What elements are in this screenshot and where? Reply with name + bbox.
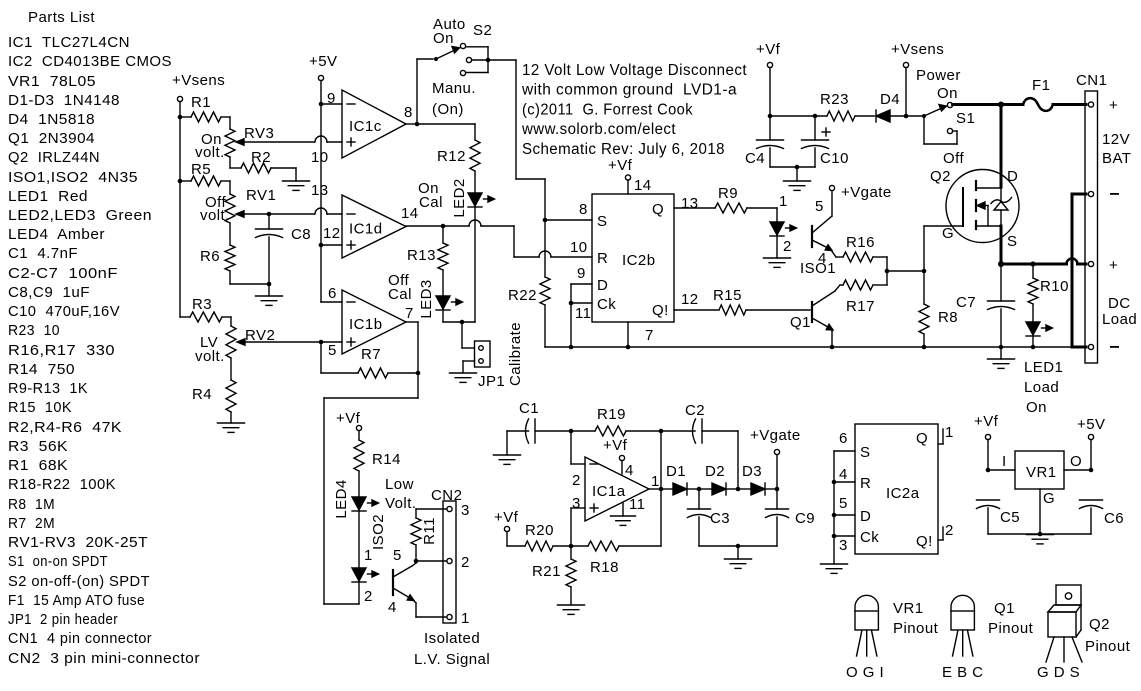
svg-text:Q1: Q1: [994, 600, 1015, 617]
svg-text:+5V: +5V: [1077, 416, 1105, 433]
svg-text:R8 1M: R8 1M: [8, 496, 55, 513]
svg-text:Cal: Cal: [419, 194, 443, 211]
svg-text:+Vf: +Vf: [494, 509, 519, 526]
wire RV2 wiper to IC1b pin5: [321, 341, 342, 343]
svg-text:4: 4: [625, 462, 634, 479]
svg-text:RV1: RV1: [246, 187, 276, 204]
svg-text:D4 1N5818: D4 1N5818: [8, 111, 95, 128]
wire battery - return (thick): [1072, 194, 1086, 347]
svg-text:R16: R16: [846, 234, 875, 251]
ground (C4/C10): [784, 167, 811, 190]
svg-text:Calibrate: Calibrate: [507, 322, 524, 386]
svg-text:Parts List: Parts List: [28, 9, 95, 26]
svg-text:S2: S2: [473, 22, 492, 39]
svg-text:I: I: [1002, 453, 1007, 470]
svg-text:C9: C9: [795, 510, 815, 527]
node drain tap (thick): [998, 102, 1004, 108]
power terminal +Vf (VR1 input): [974, 413, 999, 472]
resistor R8: [919, 271, 958, 349]
svg-text:RV1-RV3 20K-25T: RV1-RV3 20K-25T: [8, 534, 148, 551]
svg-text:D: D: [597, 277, 608, 294]
resistor R20: [525, 522, 571, 551]
svg-text:+Vf: +Vf: [336, 410, 361, 427]
svg-text:S2 on-off-(on) SPDT: S2 on-off-(on) SPDT: [8, 573, 150, 590]
wire S2 to IC2b S pin: [488, 60, 545, 220]
svg-text:G: G: [942, 225, 954, 242]
node C8 tap: [267, 212, 272, 217]
resistor R16: [843, 234, 887, 271]
svg-text:R2: R2: [251, 149, 271, 166]
node R5 tap: [178, 179, 183, 184]
svg-text:R16,R17 330: R16,R17 330: [8, 342, 115, 359]
svg-text:R8: R8: [938, 309, 958, 326]
svg-text:RV3: RV3: [244, 125, 274, 142]
svg-text:IC2 CD4013BE CMOS: IC2 CD4013BE CMOS: [8, 53, 172, 70]
wire IC1a pin2: [571, 431, 585, 464]
pin labels IC1c: [311, 90, 413, 166]
label LED1 Load On: [1024, 359, 1063, 416]
wire battery + (thick): [953, 103, 1086, 106]
op-amp IC1b: [342, 290, 406, 354]
svg-text:R7 2M: R7 2M: [8, 515, 55, 532]
svg-text:1: 1: [651, 473, 660, 490]
resistor R12: [437, 124, 480, 192]
svg-text:7: 7: [645, 327, 654, 344]
svg-text:C10: C10: [820, 150, 849, 167]
svg-text:LED1 Red: LED1 Red: [8, 188, 88, 205]
resistor R5: [180, 161, 230, 186]
svg-text:14: 14: [634, 177, 652, 194]
svg-text:R1: R1: [191, 94, 211, 111]
svg-text:C7: C7: [956, 294, 976, 311]
wire LED3 cathode / calibrate node: [443, 311, 475, 324]
svg-text:Pinout: Pinout: [988, 620, 1034, 637]
resistor R10: [1028, 264, 1069, 321]
wire C4/C10 ground bus: [770, 165, 815, 170]
svg-text:Volt.: Volt.: [385, 495, 416, 512]
switch S1: [906, 102, 957, 144]
svg-text:with common ground LVD1-a: with common ground LVD1-a: [521, 82, 737, 99]
svg-text:IC1 TLC27L4CN: IC1 TLC27L4CN: [8, 34, 130, 51]
svg-text:IC2a: IC2a: [886, 485, 920, 502]
hop load+ over battery-: [1067, 259, 1078, 265]
capacitor C5: [977, 500, 1021, 534]
power terminal +Vf (top right): [756, 41, 781, 118]
svg-text:9: 9: [577, 265, 586, 282]
svg-text:LED2: LED2: [451, 178, 468, 217]
wire IC2b D/Ck tie: [569, 284, 592, 349]
power terminal +Vf (IC1a pin4): [603, 437, 628, 474]
pin labels IC1b: [328, 285, 414, 359]
svg-text:Q!: Q!: [652, 302, 669, 319]
transistor Q2 (MOSFET IRLZ44N): [946, 170, 1019, 243]
svg-text:C3: C3: [710, 510, 730, 527]
fuse F1: [1023, 77, 1053, 111]
power terminal +Vf (IC2b pin14): [608, 157, 633, 194]
svg-text:Q2: Q2: [1089, 616, 1110, 633]
labels VR1 pinout: [846, 600, 939, 681]
svg-text:volt.: volt.: [195, 348, 225, 365]
svg-text:VR1 78L05: VR1 78L05: [8, 73, 96, 90]
resistor R13: [407, 226, 448, 295]
svg-text:R: R: [860, 475, 871, 492]
LED LED2: [451, 178, 495, 217]
svg-text:On: On: [433, 30, 454, 47]
power terminal +Vgate (pump output): [750, 427, 801, 489]
wire LED4 to ISO2 LED: [358, 512, 360, 568]
svg-text:10: 10: [570, 239, 588, 256]
svg-text:Q1 2N3904: Q1 2N3904: [8, 130, 95, 147]
pin labels ISO1 LED: [779, 193, 792, 255]
svg-text:CN2 3 pin mini-connector: CN2 3 pin mini-connector: [8, 650, 200, 667]
op-amp IC1a: [585, 457, 649, 521]
ground (R4): [218, 423, 245, 432]
wire IC1b pin7 output down to LED4 chain: [324, 322, 420, 604]
wire IC1a output node: [619, 429, 663, 546]
labels Q1 pinout: [942, 600, 1034, 681]
svg-text:5: 5: [328, 342, 337, 359]
svg-text:12 Volt Low Voltage Disconnect: 12 Volt Low Voltage Disconnect: [522, 62, 747, 79]
svg-text:R3 56K: R3 56K: [8, 438, 68, 455]
svg-text:D2: D2: [705, 463, 725, 480]
pinout Q1 (TO-92): [951, 595, 974, 656]
svg-text:L.V. Signal: L.V. Signal: [414, 651, 490, 668]
capacitor C9: [766, 489, 816, 546]
svg-text:VR1: VR1: [1026, 464, 1057, 481]
svg-text:13: 13: [681, 195, 699, 212]
pin labels ISO2 LED: [364, 547, 373, 605]
capacitor C2: [661, 402, 738, 489]
svg-text:R: R: [597, 250, 608, 267]
svg-text:4: 4: [818, 250, 827, 267]
svg-text:3: 3: [461, 502, 470, 519]
node pin12: [319, 243, 342, 248]
svg-text:LED1: LED1: [1024, 359, 1063, 376]
resistor R1: [180, 94, 230, 122]
svg-text:8: 8: [404, 104, 413, 121]
capacitor C1: [519, 400, 571, 443]
svg-text:8: 8: [579, 201, 588, 218]
LED LED3: [418, 279, 463, 318]
svg-text:D: D: [860, 508, 871, 525]
title block: [521, 62, 747, 158]
ground (C8/R6): [256, 284, 283, 305]
wire source to load + (thick): [1001, 226, 1086, 264]
labels S2 Auto/On/Manu: [432, 16, 492, 118]
ground (R2): [283, 168, 310, 190]
svg-text:3: 3: [839, 537, 848, 554]
wire IC2a Q! stub: [938, 527, 943, 540]
wire gate node: [885, 226, 963, 273]
svg-text:ISO2: ISO2: [370, 514, 387, 550]
resistor R15: [674, 287, 810, 315]
label Off volt.: [200, 194, 230, 224]
resistor R18: [569, 541, 619, 576]
svg-text:R1 68K: R1 68K: [8, 457, 68, 474]
svg-text:R18: R18: [590, 559, 619, 576]
svg-text:14: 14: [401, 205, 419, 222]
resistor R14: [354, 440, 401, 496]
svg-text:D4: D4: [880, 91, 900, 108]
resistor R3: [180, 296, 231, 322]
svg-text:+: +: [1109, 257, 1118, 274]
svg-text:Ck: Ck: [597, 296, 616, 313]
svg-text:IC1a: IC1a: [592, 483, 626, 500]
flip-flop IC2b: [592, 194, 674, 322]
svg-text:C6: C6: [1104, 510, 1124, 527]
svg-text:IC1c: IC1c: [349, 118, 382, 135]
labels Q2 D G S: [930, 168, 1018, 250]
svg-text:C10 470uF,16V: C10 470uF,16V: [8, 303, 120, 320]
ground (JP1): [450, 373, 477, 382]
switch S2: [417, 43, 490, 75]
resistor R11: [411, 509, 447, 563]
svg-text:(On): (On): [432, 101, 464, 118]
wire R5 to RV1: [229, 181, 231, 194]
svg-text:E B C: E B C: [942, 664, 983, 681]
potentiometer RV3: [225, 125, 314, 157]
svg-text:Load: Load: [1024, 379, 1059, 396]
svg-text:S1: S1: [956, 110, 975, 127]
svg-text:Pinout: Pinout: [893, 620, 939, 637]
wire IC2b pin7 to ground rail: [626, 322, 631, 349]
optocoupler ISO2 transistor: [370, 514, 447, 617]
svg-text:+Vf: +Vf: [603, 437, 628, 454]
regulator VR1: [988, 451, 1091, 534]
resistor R6: [200, 223, 269, 284]
svg-text:DC: DC: [1108, 295, 1131, 312]
svg-text:Pinout: Pinout: [1085, 638, 1131, 655]
capacitor C3: [688, 489, 731, 546]
power terminal +Vf (R20): [494, 509, 525, 546]
wire ground rail (pin7 net): [545, 346, 1070, 348]
svg-text:R21: R21: [532, 563, 561, 580]
wire IC1c pin8 output: [406, 59, 475, 126]
svg-text:D: D: [1007, 168, 1018, 185]
svg-text:1: 1: [945, 424, 954, 441]
svg-text:+Vgate: +Vgate: [750, 427, 801, 444]
svg-text:2: 2: [364, 588, 373, 605]
svg-text:RV2: RV2: [245, 327, 275, 344]
svg-text:Low: Low: [385, 476, 414, 493]
svg-text:C4: C4: [745, 150, 765, 167]
svg-text:C8,C9 1uF: C8,C9 1uF: [8, 284, 90, 301]
svg-text:2: 2: [572, 472, 581, 489]
label Isolated L.V. Signal: [414, 630, 490, 668]
svg-text:S: S: [597, 213, 607, 230]
svg-text:+5V: +5V: [309, 53, 337, 70]
wire RV1 wiper to IC1d pin13 (hops +5V rail): [269, 208, 342, 214]
svg-text:6: 6: [839, 430, 848, 447]
labels ISO1: [800, 198, 836, 277]
pinout VR1 (TO-92): [855, 595, 878, 656]
node R1 tap: [178, 115, 183, 120]
label On volt.: [195, 131, 225, 161]
svg-text:R9-R13 1K: R9-R13 1K: [8, 380, 88, 397]
connector CN2: [443, 501, 456, 623]
resistor R23: [770, 91, 874, 121]
label Q1: [790, 314, 811, 331]
svg-text:1: 1: [779, 193, 788, 210]
svg-text:www.solorb.com/elect: www.solorb.com/elect: [521, 121, 676, 138]
svg-text:+Vsens: +Vsens: [172, 72, 225, 89]
node R6/C8 junction: [267, 282, 272, 287]
svg-text:Q2 IRLZ44N: Q2 IRLZ44N: [8, 149, 100, 166]
labels CN1 12V BAT / DC Load: [1076, 72, 1137, 348]
svg-text:12: 12: [681, 291, 699, 308]
svg-text:C1: C1: [519, 400, 539, 417]
label On Cal: [418, 180, 443, 211]
wire IC2a Q stub: [938, 429, 943, 444]
label JP1: [478, 373, 505, 390]
svg-text:+Vsens: +Vsens: [891, 41, 944, 58]
svg-text:C1 4.7nF: C1 4.7nF: [8, 245, 78, 262]
potentiometer RV1: [225, 187, 276, 223]
svg-text:R14 750: R14 750: [8, 361, 75, 378]
svg-text:R7: R7: [361, 346, 381, 363]
svg-text:2: 2: [461, 554, 470, 571]
svg-text:LED2,LED3 Green: LED2,LED3 Green: [8, 207, 152, 224]
svg-text:+Vgate: +Vgate: [841, 184, 892, 201]
wire RV3 wiper to IC1c pin10 (hops +5V rail): [315, 136, 342, 142]
svg-text:R4: R4: [192, 386, 212, 403]
svg-text:5: 5: [393, 547, 402, 564]
capacitor C10 (electrolytic): [802, 116, 849, 167]
svg-text:Q: Q: [652, 201, 664, 218]
svg-text:R15 10K: R15 10K: [8, 399, 72, 416]
svg-text:2: 2: [783, 238, 792, 255]
LED LED4: [333, 479, 379, 518]
svg-text:JP1: JP1: [478, 373, 505, 390]
potentiometer RV2: [226, 317, 321, 358]
power terminal +Vf (R14): [336, 410, 362, 440]
svg-text:3: 3: [572, 495, 581, 512]
svg-text:R20: R20: [525, 522, 554, 539]
svg-text:R23: R23: [820, 91, 849, 108]
svg-text:9: 9: [327, 90, 336, 107]
svg-text:C8: C8: [291, 226, 311, 243]
capacitor C8: [256, 214, 312, 284]
svg-text:R15: R15: [713, 287, 742, 304]
svg-text:R5: R5: [191, 161, 211, 178]
resistor R4: [192, 358, 236, 423]
svg-text:+Vf: +Vf: [756, 41, 781, 58]
svg-text:R17: R17: [846, 298, 875, 315]
svg-text:volt.: volt.: [195, 144, 225, 161]
optocoupler ISO1 transistor: [812, 191, 843, 258]
diode D1: [661, 463, 701, 495]
wire drain feed (thick): [1000, 105, 1003, 188]
svg-text:+Vf: +Vf: [608, 157, 633, 174]
svg-text:12: 12: [323, 225, 341, 242]
svg-text:On: On: [1026, 399, 1047, 416]
svg-text:S1 on-on SPDT: S1 on-on SPDT: [8, 553, 108, 570]
svg-text:On: On: [937, 85, 958, 102]
svg-text:R9: R9: [718, 185, 738, 202]
svg-text:IC1b: IC1b: [349, 316, 383, 333]
pin labels IC2b: [570, 177, 699, 344]
svg-text:Off: Off: [943, 150, 964, 167]
power terminal +Vsens (left): [172, 72, 225, 102]
diode D2: [699, 463, 740, 495]
svg-text:CN2: CN2: [431, 487, 462, 504]
svg-text:Q: Q: [916, 430, 928, 447]
wire ISO2 collector to CN2 pin2: [416, 560, 447, 562]
ground (ISO1 LED): [764, 237, 791, 267]
svg-text:S: S: [1007, 233, 1017, 250]
svg-text:IC1d: IC1d: [349, 221, 383, 238]
transistor Q1: [812, 285, 843, 349]
resistor R19: [569, 406, 661, 436]
labels CN2: [431, 487, 470, 627]
LED ISO1 input: [770, 208, 797, 236]
ground (VR1): [1027, 535, 1054, 544]
svg-text:D3: D3: [742, 463, 762, 480]
capacitor C4: [745, 116, 784, 167]
svg-text:4: 4: [839, 466, 848, 483]
svg-text:Ck: Ck: [860, 529, 879, 546]
power terminal +5V (VR1 output): [1077, 416, 1105, 472]
op-amp IC1c: [342, 90, 406, 158]
label Off Cal: [388, 272, 412, 303]
wire IC1a pin3: [571, 508, 585, 546]
wire IC1d pin14 output to IC2b R pin: [406, 220, 592, 257]
svg-text:10: 10: [311, 149, 329, 166]
op-amp IC1d: [342, 195, 406, 258]
svg-text:Q2: Q2: [930, 168, 951, 185]
wire LED2 cathode down: [474, 208, 476, 322]
connector CN1: [1085, 91, 1098, 363]
svg-text:5: 5: [815, 198, 824, 215]
diode D3: [738, 463, 779, 495]
ground (R21): [558, 605, 585, 614]
svg-text:ISO1,ISO2 4N35: ISO1,ISO2 4N35: [8, 169, 138, 186]
svg-text:Load: Load: [1102, 311, 1137, 328]
svg-text:C2: C2: [685, 402, 705, 419]
svg-text:LED4: LED4: [333, 479, 350, 518]
svg-text:R11: R11: [421, 517, 438, 545]
svg-text:R12: R12: [437, 148, 466, 165]
svg-text:2: 2: [945, 522, 954, 539]
svg-text:Cal: Cal: [388, 286, 412, 303]
resistor R17: [843, 271, 887, 315]
svg-text:D1: D1: [666, 463, 686, 480]
svg-text:JP1 2 pin header: JP1 2 pin header: [8, 611, 118, 628]
svg-text:Schematic Rev: July 6, 2018: Schematic Rev: July 6, 2018: [522, 141, 725, 158]
ground (IC2a): [821, 564, 848, 573]
svg-text:R14: R14: [372, 451, 401, 468]
pin labels IC1d: [311, 182, 419, 242]
ground (IC1a pin11): [611, 503, 636, 525]
svg-text:+: +: [1109, 97, 1118, 114]
svg-text:4: 4: [388, 599, 397, 616]
LED ISO2 input: [352, 568, 379, 582]
wire pump ground bus: [699, 544, 777, 549]
ground (C7): [988, 347, 1015, 368]
svg-text:Isolated: Isolated: [424, 630, 480, 647]
resistor R21: [532, 546, 576, 604]
svg-text:7: 7: [405, 305, 414, 322]
pinout Q2 (TO-220): [1046, 585, 1082, 662]
power terminal +Vsens (right): [891, 41, 944, 116]
wire VR1 ground bus: [988, 532, 1091, 537]
svg-text:CN1: CN1: [1076, 72, 1107, 89]
svg-text:R13: R13: [407, 247, 436, 264]
svg-text:R6: R6: [200, 248, 220, 265]
power terminal +Vgate (ISO1): [829, 184, 891, 201]
jumper JP1: [462, 322, 490, 372]
svg-text:R10: R10: [1040, 278, 1069, 295]
